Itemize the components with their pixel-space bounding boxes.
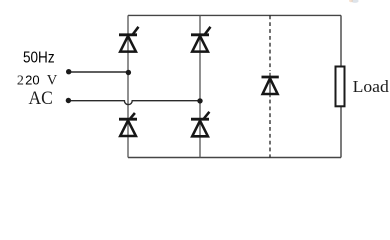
terminal dot lower AC [66,98,71,103]
svg-text:2: 2 [17,74,24,89]
wire bottom bus [128,157,341,159]
thyristor T4 bottom-right [191,112,209,137]
junction node right arm / lower lead [197,98,202,103]
thyristor T3 bottom-left [119,113,137,136]
thyristor T1 top-left [119,27,139,52]
wire upper AC lead [69,71,128,73]
diode D1 freewheeling [262,77,279,94]
svg-text:20: 20 [25,73,39,88]
svg-text:50Hz: 50Hz [23,50,55,67]
svg-text:AC: AC [29,89,53,109]
junction node left arm / upper lead [126,70,131,75]
terminal dot upper AC [66,69,71,74]
svg-text:V: V [47,73,58,89]
wire dashed freewheeling branch [269,15,271,71]
wire lower AC lead with hop over left arm [68,101,200,105]
wire load branch right edge [340,15,342,66]
load resistor rectangle [336,67,345,107]
thyristor T2 top-right [191,27,211,52]
svg-text:Load: Load [353,77,390,96]
wire top bus [128,14,341,16]
wire left bridge arm [127,15,129,157]
wire right bridge arm [199,15,201,157]
scan smudge artifact [349,0,359,3]
